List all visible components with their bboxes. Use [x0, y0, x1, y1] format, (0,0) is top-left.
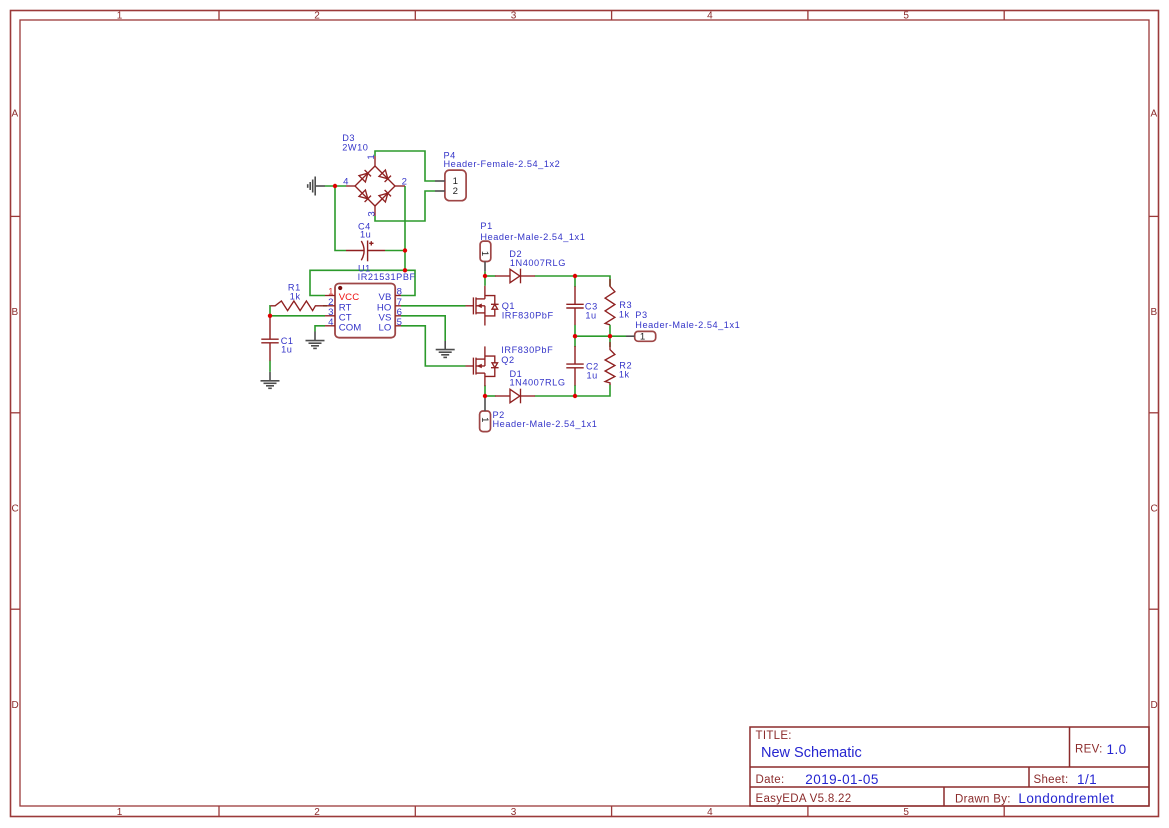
svg-text:1.0: 1.0 [1107, 742, 1127, 757]
resistor R3 [605, 279, 615, 325]
wire: mid rail to P3 [575, 335, 626, 337]
transistor Q1 IRF830PbF [466, 286, 499, 326]
bridge rectifier D3 body [346, 156, 405, 216]
wire: R1 right to pin2 [323, 305, 327, 307]
Q2 arrow [477, 364, 482, 369]
svg-text:1: 1 [479, 417, 490, 422]
capacitor C2 [566, 346, 583, 386]
svg-text:COM: COM [339, 323, 362, 334]
svg-text:B: B [12, 307, 19, 318]
svg-text:1k: 1k [290, 291, 301, 301]
svg-text:2019-01-05: 2019-01-05 [805, 772, 879, 787]
svg-text:Londondremlet: Londondremlet [1018, 791, 1114, 806]
svg-text:A: A [1151, 109, 1158, 120]
junction node P1 D2 Q1 [483, 274, 487, 278]
P2 pin stub [484, 398, 486, 411]
svg-text:4: 4 [707, 807, 713, 818]
svg-text:1u: 1u [360, 230, 371, 240]
svg-text:1: 1 [117, 807, 123, 818]
svg-text:1: 1 [117, 11, 123, 22]
svg-text:3: 3 [511, 11, 517, 22]
wire: VCC to VB top rail [310, 270, 415, 295]
svg-text:B: B [1151, 307, 1158, 318]
wire: C1 bottom green [269, 361, 271, 372]
bridge diode on edge 1-2 [379, 170, 391, 182]
IC U1 IR21531PBF box [335, 284, 395, 338]
bridge diode on edge 4-1 [359, 170, 371, 182]
capacitor C4 polarized [346, 241, 385, 262]
wire: bottom rail D1 cathode side [535, 395, 575, 397]
svg-text:Header-Male-2.54_1x1: Header-Male-2.54_1x1 [480, 232, 585, 242]
ruler column numbers top [117, 11, 910, 22]
svg-text:5: 5 [903, 807, 909, 818]
svg-text:Header-Female-2.54_1x2: Header-Female-2.54_1x2 [444, 159, 561, 169]
svg-text:4: 4 [707, 11, 713, 22]
svg-text:1/1: 1/1 [1077, 772, 1097, 787]
wire: bridge pin1 to P4 pin1 [375, 151, 435, 181]
svg-text:D3: D3 [342, 133, 355, 143]
wire: VS pin6 to ground [401, 316, 445, 341]
svg-text:P3: P3 [635, 310, 647, 320]
svg-text:4: 4 [328, 317, 334, 328]
wire: R2 bottom corner to bottom rail [575, 385, 610, 397]
svg-text:Header-Male-2.54_1x1: Header-Male-2.54_1x1 [635, 320, 740, 330]
connector P3 Header-Male-2.54_1x1 [635, 331, 656, 341]
wire: C3 bottom to mid node [574, 325, 576, 336]
ruler row letters right [1151, 109, 1158, 712]
P3 pin stub [626, 335, 635, 337]
diode D1 1N4007RLG [495, 389, 535, 404]
U1 pin1 marker dot [338, 286, 342, 290]
svg-text:1N4007RLG: 1N4007RLG [510, 258, 566, 268]
wire: ground to bridge pin4 [325, 185, 347, 187]
svg-text:Header-Male-2.54_1x1: Header-Male-2.54_1x1 [493, 419, 598, 429]
junction node Q2 D1 P2 [483, 394, 487, 398]
wire: node4 down and to C4 left [335, 186, 346, 251]
wire: CT node to pin3 [270, 315, 325, 317]
junction node R3 mid [608, 334, 612, 338]
wire: C4 right to node [385, 250, 405, 252]
junction node C2 D1 [573, 394, 577, 398]
svg-text:2: 2 [402, 177, 407, 188]
wire: node to D2 anode [485, 275, 496, 277]
svg-text:1k: 1k [619, 310, 630, 320]
P1 pin stub [484, 262, 486, 272]
svg-text:C: C [1151, 504, 1158, 515]
resistor R2 [605, 342, 615, 385]
ground below C1 [261, 372, 280, 389]
wire: D1 anode to Q2 source node [485, 395, 496, 397]
Q1 arrow [477, 304, 482, 309]
svg-text:2W10: 2W10 [342, 143, 368, 153]
svg-text:TITLE:: TITLE: [756, 730, 792, 742]
resistor R1 [270, 301, 325, 311]
U1 pin stubs [325, 296, 401, 326]
connector P1 Header-Male-2.54_1x1 [480, 241, 491, 261]
svg-text:5: 5 [397, 317, 402, 328]
svg-text:Date:: Date: [756, 774, 785, 786]
svg-text:1u: 1u [585, 311, 596, 321]
wire: LO pin5 to Q2 gate [401, 326, 466, 366]
svg-text:C: C [12, 504, 19, 515]
svg-text:1k: 1k [619, 370, 630, 380]
wire: D2 cathode to R3 top corner [535, 276, 610, 286]
svg-text:2: 2 [453, 186, 458, 197]
svg-text:Drawn By:: Drawn By: [955, 794, 1011, 806]
junction node CT R1 C1 [268, 314, 272, 318]
svg-text:1u: 1u [587, 370, 598, 380]
wire: COM pin4 to ground [315, 326, 325, 332]
svg-text:D: D [1151, 700, 1158, 711]
svg-text:IRF830PbF: IRF830PbF [502, 311, 554, 321]
wire: C2 top [574, 336, 576, 347]
ground at bridge pin4 (rotated left) [308, 177, 325, 196]
transistor Q2 IRF830PbF [466, 346, 499, 386]
junction node bridge pin4 [333, 184, 337, 188]
svg-text:P1: P1 [480, 221, 492, 231]
ruler column numbers bottom [117, 807, 910, 818]
svg-text:1: 1 [640, 332, 645, 343]
svg-text:Sheet:: Sheet: [1034, 774, 1069, 786]
svg-text:REV:: REV: [1075, 744, 1103, 756]
bridge diode on edge 4-3 [359, 190, 371, 202]
svg-text:LO: LO [379, 323, 392, 334]
bridge diode on edge 3-2 [379, 190, 391, 202]
diode D2 1N4007RLG [495, 269, 535, 284]
svg-text:1: 1 [366, 154, 377, 159]
junction node top rail [403, 268, 407, 272]
svg-text:4: 4 [343, 177, 349, 188]
ground at U1 COM [306, 332, 325, 349]
title block frame [750, 727, 1149, 806]
ground at VS wire [436, 341, 455, 357]
svg-text:A: A [12, 109, 19, 120]
svg-text:IRF830PbF: IRF830PbF [501, 345, 553, 355]
svg-text:EasyEDA V5.8.22: EasyEDA V5.8.22 [756, 793, 852, 805]
svg-text:3: 3 [511, 807, 517, 818]
junction node C4 right [403, 248, 407, 252]
connector P2 Header-Male-2.54_1x1 [480, 411, 491, 432]
wire: P1 to Q1 drain node [484, 271, 486, 286]
capacitor C1 [261, 317, 278, 361]
svg-text:R3: R3 [619, 300, 632, 310]
wire: mid node down to R2 top [609, 336, 611, 347]
svg-text:Q1: Q1 [502, 301, 515, 311]
wire: C3 top [574, 276, 576, 287]
svg-text:1N4007RLG: 1N4007RLG [510, 377, 566, 387]
wire: bridge pin3 to P4 pin2 [375, 191, 435, 221]
svg-text:IR21531PBF: IR21531PBF [358, 272, 416, 282]
svg-text:3: 3 [366, 211, 377, 216]
svg-text:1u: 1u [281, 345, 292, 355]
junction node D2 C3 [573, 274, 577, 278]
connector P4 Header-Female-2.54_1x2 [445, 170, 466, 201]
svg-text:2: 2 [314, 11, 320, 22]
ruler row letters left [12, 109, 19, 712]
junction node C3 mid [573, 334, 577, 338]
capacitor C3 [566, 286, 583, 325]
wire: Q2 source down to node [484, 385, 486, 396]
svg-text:2: 2 [314, 807, 320, 818]
svg-text:Q2: Q2 [501, 355, 514, 365]
svg-text:1: 1 [479, 251, 490, 256]
svg-text:New Schematic: New Schematic [761, 745, 862, 761]
svg-text:5: 5 [903, 11, 909, 22]
wire: R3 bottom to mid node [609, 325, 611, 336]
P4 pin stubs [435, 181, 445, 191]
wire: HO pin7 to Q1 gate [401, 305, 466, 307]
wire: R1 left down to CT node [269, 306, 271, 316]
svg-text:D: D [12, 700, 19, 711]
wire: bridge pin2 down to VB node [404, 186, 406, 270]
wire: C2 bottom to bottom rail [574, 385, 576, 396]
